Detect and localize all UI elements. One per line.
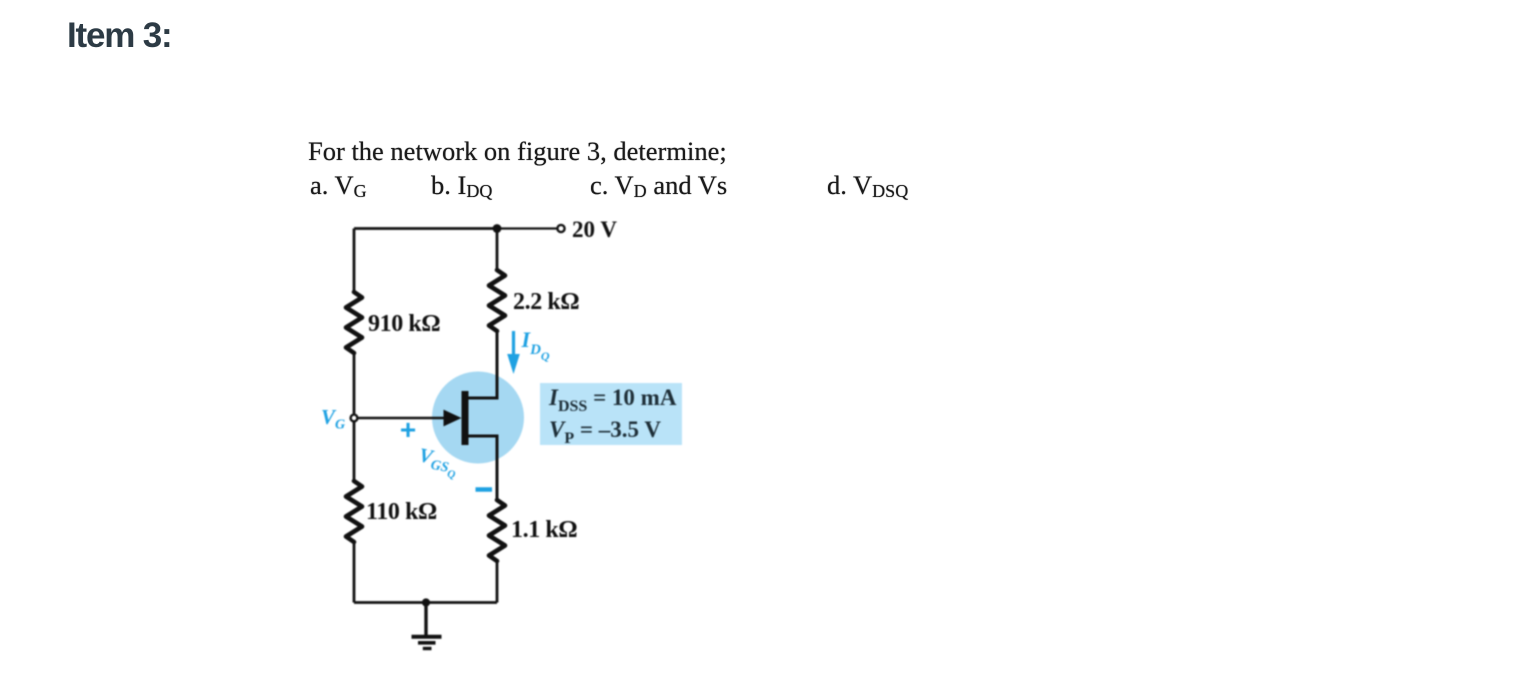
current arrow IDQ (507, 331, 520, 374)
wire left rail lower (353, 422, 356, 481)
svg-text:+: + (400, 414, 416, 445)
question line 1 (308, 136, 727, 167)
JFET highlight circle (432, 372, 524, 464)
wire right rail top (496, 229, 499, 271)
svg-text:2.2 kΩ: 2.2 kΩ (513, 289, 579, 315)
label minus VGS (476, 487, 493, 492)
node junction ground (422, 598, 430, 606)
svg-text:910 kΩ: 910 kΩ (368, 311, 440, 337)
transistor Q1 JFET channel (462, 391, 469, 445)
question item b (431, 170, 492, 201)
wire left rail bottom (353, 541, 356, 603)
resistor R4 1.1k (489, 500, 505, 561)
wire top rail (354, 227, 497, 230)
resistor R3 2.2k (489, 270, 505, 331)
node VG terminal (351, 415, 358, 422)
question item a (310, 170, 367, 201)
wire source (468, 436, 497, 500)
question item d (827, 170, 908, 201)
svg-text:1.1 kΩ: 1.1 kΩ (511, 517, 577, 543)
annotation box (540, 383, 682, 445)
resistor R1 910k (346, 292, 362, 353)
transistor Q1 gate arrow (444, 410, 462, 427)
wire supply lead (497, 227, 557, 229)
svg-text:VG: VG (321, 405, 345, 433)
terminal 20V (557, 225, 564, 232)
resistor R2 110k (346, 481, 362, 542)
wire left rail mid (353, 353, 356, 414)
wire drain (468, 331, 497, 398)
svg-text:IDQ: IDQ (521, 327, 550, 363)
wire gate (358, 417, 445, 420)
wire left rail upper (353, 229, 356, 293)
wire right rail bottom (496, 561, 499, 603)
svg-text:110 kΩ: 110 kΩ (366, 499, 437, 525)
node junction top (493, 224, 502, 233)
label VGSQ (416, 444, 460, 481)
heading Item 3: (67, 16, 171, 56)
ground (412, 603, 442, 649)
question item c (590, 170, 727, 201)
wire bottom rail (354, 601, 497, 604)
svg-text:20 V: 20 V (572, 217, 617, 242)
